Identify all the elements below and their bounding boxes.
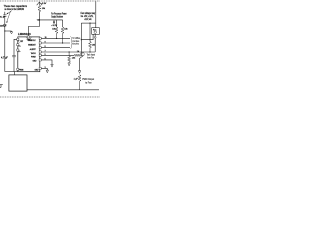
wire SMBDAT bus <box>41 42 70 44</box>
svg-text:PWM: PWM <box>31 57 36 59</box>
label For Processor Power Supply Shutdown <box>51 13 66 19</box>
wire +12V drop from top <box>95 1 97 23</box>
svg-text:Tach Input: Tach Input <box>87 54 96 57</box>
node tach pullup top <box>89 23 90 24</box>
label Tach input from fan <box>87 54 96 60</box>
svg-text:+12V, etc.: +12V, etc. <box>84 18 92 21</box>
resistor R7 emitter <box>78 75 81 90</box>
IC U1 body <box>18 37 40 72</box>
wire C3 to ground line <box>13 57 15 72</box>
tach connector circle <box>94 36 96 38</box>
node SMBCLK pull-up <box>56 38 57 39</box>
node TACH pull-up <box>89 51 90 52</box>
wire tach from fan <box>94 34 96 36</box>
svg-text:TACH: TACH <box>31 52 37 55</box>
pin box right 5 PWM <box>39 54 41 56</box>
pin box left 3 <box>17 49 19 51</box>
svg-text:D−: D− <box>19 51 21 53</box>
wire between capacitors <box>4 16 6 24</box>
svg-text:4.7 µF: 4.7 µF <box>1 57 8 60</box>
wire VDD bypass top <box>4 12 6 15</box>
wire R1 to node <box>38 12 40 20</box>
svg-text:PWM: PWM <box>19 69 24 71</box>
resistor R2 10k SMBCLK <box>55 27 58 38</box>
pin box right 6 GND <box>39 59 41 61</box>
svg-text:SMBCLK: SMBCLK <box>28 40 36 42</box>
resistor R4 PWM pulldown <box>68 52 71 63</box>
fan motor circle <box>94 31 96 33</box>
label fan voltage note <box>81 12 96 21</box>
wire VDD elbow down <box>28 20 39 36</box>
wire tach connector down <box>94 38 96 52</box>
pin box right 4 TACH <box>39 51 41 53</box>
label PWM output to fan <box>82 78 94 84</box>
supply +3.3V arrow top <box>37 2 42 5</box>
supply +3.3V arrow mid <box>53 20 55 24</box>
ground arrow pin7 <box>46 70 48 73</box>
pin VDD top box <box>27 36 29 38</box>
resistor R6 base 1k <box>74 54 80 56</box>
ground rail bottom <box>27 89 99 91</box>
resistor R5 tach pull-up <box>89 42 92 53</box>
pin box right 2 SMBDAT <box>39 42 41 44</box>
ground arrow near caps <box>10 31 13 34</box>
ground symbol 3-bar left <box>0 84 3 87</box>
svg-text:to Fan: to Fan <box>85 81 92 84</box>
svg-text:ALERT: ALERT <box>30 48 36 51</box>
svg-text:as close to the LM96163: as close to the LM96163 <box>5 7 25 11</box>
resistor R3 10k SMBDAT <box>61 27 64 43</box>
wire ALERT bus <box>41 47 70 49</box>
pin box right 3 ALERT <box>39 47 41 49</box>
pin box right 1 SMBCLK <box>39 37 41 39</box>
capacitor C1 <box>3 15 6 16</box>
wire to ground arrow <box>5 30 12 32</box>
wire 4.7uF from left pin 1 <box>14 39 17 55</box>
svg-text:+3.3V: +3.3V <box>41 3 47 5</box>
wire fan minus <box>81 34 93 39</box>
wire PWM line <box>41 54 74 56</box>
wire below capacitors <box>4 26 6 72</box>
wire fan supply line <box>81 22 96 24</box>
ground arrow pin6 <box>51 64 53 67</box>
svg-text:PWM Output: PWM Output <box>82 78 94 81</box>
wire GND pin 7 elbow <box>41 68 47 70</box>
wire tach pull-up top <box>89 23 91 41</box>
resistor R1 pull-up <box>38 5 41 11</box>
note: capacitor placement text <box>4 4 28 11</box>
wire fan plus drop <box>95 23 97 28</box>
pin box left 1 <box>17 38 19 40</box>
wire shutdown signal with left arrow <box>36 19 62 21</box>
wire drop to processor box <box>13 72 15 75</box>
pin box right 7 GND <box>39 67 41 69</box>
pin box left 4 <box>17 68 19 70</box>
label To SMBus interface circuitry <box>72 38 80 46</box>
svg-text:D+: D+ <box>19 46 21 48</box>
wire collector into Q1 <box>80 40 82 52</box>
node cap ground branch <box>4 30 5 31</box>
wire ground bus left <box>5 71 18 73</box>
wire SMBCLK bus <box>41 37 70 39</box>
wire pull-up rail <box>57 20 63 27</box>
node TACH pulldown <box>69 51 70 52</box>
node collector junction <box>81 39 82 40</box>
wire GND pin 6 elbow <box>41 60 52 64</box>
transistor Q1 <box>81 52 85 56</box>
svg-text:1 µF: 1 µF <box>74 78 79 80</box>
svg-text:from Fan: from Fan <box>87 56 94 59</box>
svg-text:To SMBus: To SMBus <box>72 38 80 40</box>
pin numbers right column <box>45 37 47 69</box>
capacitor C3 4.7uF <box>12 55 15 57</box>
node A junction <box>39 19 40 20</box>
fan box <box>92 28 100 35</box>
brace SMBus group <box>70 37 72 49</box>
svg-text:0.1 µF: 0.1 µF <box>0 16 5 18</box>
svg-text:interface: interface <box>72 40 79 43</box>
wire TACH line <box>41 51 95 53</box>
svg-text:T_CRIT: T_CRIT <box>19 41 24 43</box>
wire fan supply to collector node <box>80 23 82 40</box>
pin box left 2 <box>17 44 19 46</box>
dotted page border top <box>0 0 100 2</box>
capacitor C2 <box>3 25 6 26</box>
svg-text:SMBDAT: SMBDAT <box>28 43 35 46</box>
pin notch arc top <box>27 37 31 39</box>
arrow on emitter line <box>78 71 80 74</box>
svg-text:Supply Shutdown: Supply Shutdown <box>51 16 63 19</box>
svg-text:circuitry: circuitry <box>72 43 79 46</box>
svg-text:LM96163: LM96163 <box>18 32 31 36</box>
processor box <box>9 75 27 91</box>
node SMBDAT pull-up <box>62 42 63 43</box>
note arrow to capacitors <box>6 11 12 23</box>
dotted page border bottom <box>0 96 100 98</box>
ground arrow R4 <box>68 63 70 66</box>
wire emitter down <box>80 56 84 71</box>
